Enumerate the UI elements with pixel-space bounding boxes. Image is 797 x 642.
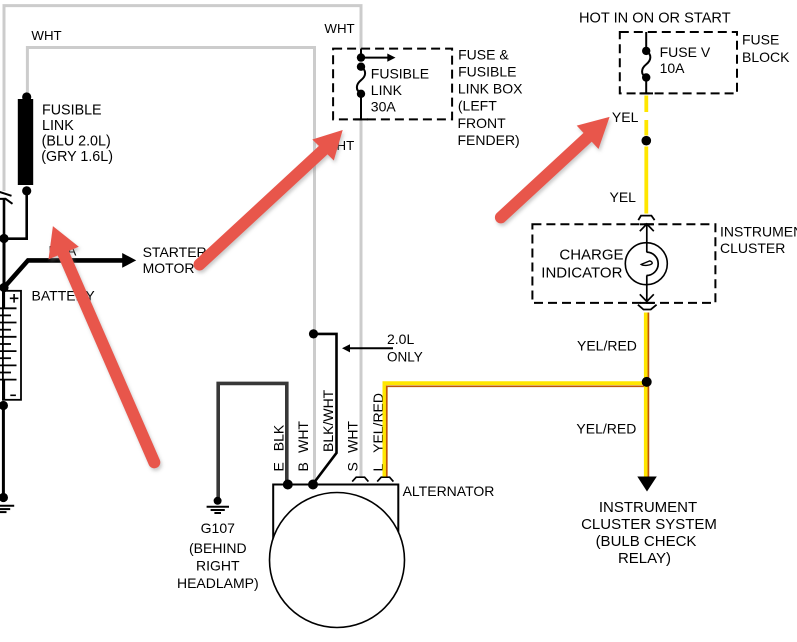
node terminal E xyxy=(283,480,293,490)
arrowhead starter motor xyxy=(122,253,136,268)
wire battery negative to ground xyxy=(2,406,5,498)
svg-text:RIGHT: RIGHT xyxy=(196,557,240,573)
svg-text:CLUSTER: CLUSTER xyxy=(720,240,785,256)
wire fusible link to battery junction xyxy=(4,191,27,239)
svg-text:B: B xyxy=(295,462,311,471)
connector above instrument cluster xyxy=(638,216,654,221)
dash at cluster box top wire crossing xyxy=(640,223,654,225)
svg-text:INDICATOR: INDICATOR xyxy=(541,265,622,282)
wire WHT battery-to-fuseblock (gray, left edge / top / down at x361) xyxy=(4,6,361,191)
svg-text:FUSIBLE: FUSIBLE xyxy=(42,103,102,119)
node ground terminal xyxy=(0,493,8,502)
ground symbol (battery, clipped at edge) xyxy=(0,506,14,512)
fusible link 30A wire top xyxy=(360,49,362,58)
svg-text:(BLU 2.0L): (BLU 2.0L) xyxy=(42,134,111,150)
fusible link 30A element (S-curve) xyxy=(357,67,365,94)
wire fuse V to box bottom xyxy=(645,78,647,94)
svg-text:S: S xyxy=(345,462,361,471)
connector terminal S xyxy=(352,477,368,481)
wire YEL (fuse block to cluster, dashed start) xyxy=(644,96,648,113)
svg-text:FRONT: FRONT xyxy=(458,115,507,131)
svg-text:(BULB CHECK: (BULB CHECK xyxy=(596,533,697,550)
svg-text:FUSE: FUSE xyxy=(742,32,779,48)
svg-text:E: E xyxy=(270,462,286,471)
svg-text:FUSE V: FUSE V xyxy=(660,44,711,60)
wire YEL/RED junction to arrow xyxy=(644,382,648,478)
wire YEL/RED alternator-L to junction (yellow with red tracer) xyxy=(384,383,646,476)
label FUSE & FUSIBLE LINK BOX (LEFT FRONT FENDER) xyxy=(458,46,524,148)
node fusible link 30A top xyxy=(357,53,365,61)
red callout arrow 3 (to fuse block YEL) xyxy=(501,117,610,217)
svg-text:(GRY 1.6L): (GRY 1.6L) xyxy=(41,149,113,165)
svg-text:CHARGE: CHARGE xyxy=(559,247,623,264)
fusible link 30A box (dashed) xyxy=(333,49,452,120)
svg-text:STARTER: STARTER xyxy=(143,244,207,260)
wire E to ground G107 (dark gray) xyxy=(218,383,287,498)
svg-text:INSTRUMENT: INSTRUMENT xyxy=(599,499,697,516)
svg-text:LINK: LINK xyxy=(42,118,74,134)
svg-text:(LEFT: (LEFT xyxy=(458,97,497,113)
wire connector to battery junction (black) xyxy=(3,200,6,239)
svg-text:FUSE &: FUSE & xyxy=(458,46,509,62)
svg-text:LINK: LINK xyxy=(371,82,403,98)
wire junction to battery + xyxy=(3,239,6,288)
wire BLK/WHT 2.0L branch xyxy=(313,334,337,484)
svg-text:FUSIBLE: FUSIBLE xyxy=(458,63,516,79)
node fusible link 30A element top xyxy=(357,62,365,70)
svg-text:YEL/RED: YEL/RED xyxy=(577,337,637,353)
svg-text:BLK: BLK xyxy=(270,424,286,451)
battery B (symbol) xyxy=(0,291,21,400)
dash at fuse block bottom wire crossing xyxy=(640,92,654,94)
charge indicator wire with arrows xyxy=(646,224,648,252)
svg-text:G107: G107 xyxy=(201,520,235,536)
connector pair on left WHT wire (cut off at edge) xyxy=(0,191,13,204)
svg-text:WHT: WHT xyxy=(324,21,354,36)
svg-text:MOTOR: MOTOR xyxy=(143,260,195,276)
arrow 2.0L ONLY xyxy=(349,347,393,349)
arrow tap to right inside box xyxy=(361,57,388,59)
node battery positive xyxy=(0,283,9,292)
connector below instrument cluster xyxy=(638,305,657,310)
svg-text:FENDER): FENDER) xyxy=(458,132,520,148)
svg-text:INSTRUMENT: INSTRUMENT xyxy=(720,224,797,240)
wire battery to starter motor (thick) xyxy=(4,260,123,287)
svg-text:HEADLAMP): HEADLAMP) xyxy=(177,575,259,591)
svg-text:YEL: YEL xyxy=(610,189,637,205)
svg-text:2.0L: 2.0L xyxy=(387,331,414,347)
red callout arrow 2 (to fusible link 30A box) xyxy=(200,130,343,265)
svg-text:LINK BOX: LINK BOX xyxy=(458,80,523,96)
svg-text:WHT: WHT xyxy=(31,28,61,43)
svg-text:WHT: WHT xyxy=(295,421,311,453)
svg-text:WHT: WHT xyxy=(345,421,361,453)
label G107 (BEHIND RIGHT HEADLAMP) xyxy=(177,520,259,591)
svg-text:ALTERNATOR: ALTERNATOR xyxy=(403,483,495,499)
dash at cluster box bottom wire crossing xyxy=(640,302,654,304)
node fuse V top xyxy=(642,47,650,55)
fuse V wire top xyxy=(645,32,647,51)
node BLK/WHT tap on B wire xyxy=(309,329,318,338)
node fusible link 30A element bottom xyxy=(357,90,365,98)
node on YEL wire xyxy=(642,136,652,146)
svg-text:30A: 30A xyxy=(371,99,397,115)
wire WHT fuselink30A-to-alternator-S (gray below box) xyxy=(360,119,363,476)
battery minus sign xyxy=(10,394,16,396)
svg-text:CLUSTER SYSTEM: CLUSTER SYSTEM xyxy=(581,516,717,533)
svg-text:ONLY: ONLY xyxy=(387,350,423,365)
fuse block box (dashed) xyxy=(620,32,737,93)
node battery negative xyxy=(0,401,8,410)
red callout arrow 1 (to left fusible link) xyxy=(49,226,155,462)
wire WHT fusiblelink-to-alternator-B (gray) xyxy=(27,48,314,485)
svg-text:(BEHIND: (BEHIND xyxy=(189,540,247,556)
dash at fusible link box bottom wire crossing xyxy=(355,118,369,120)
alternator circle xyxy=(270,493,405,628)
svg-text:RELAY): RELAY) xyxy=(618,550,671,567)
svg-text:HOT IN ON OR START: HOT IN ON OR START xyxy=(579,11,731,27)
label FUSIBLE LINK (BLU 2.0L) (GRY 1.6L) xyxy=(41,103,113,165)
svg-text:YEL/RED: YEL/RED xyxy=(576,421,636,437)
svg-text:10A: 10A xyxy=(660,60,686,76)
fuse V element (S-curve) xyxy=(642,51,650,78)
node terminal B xyxy=(308,480,318,490)
battery plus sign xyxy=(10,294,19,303)
instrument cluster box (dashed) xyxy=(532,224,715,303)
label INSTRUMENT CLUSTER SYSTEM (BULB CHECK RELAY) xyxy=(581,499,717,567)
node ground G107 xyxy=(214,497,222,505)
arrowhead to instrument cluster system xyxy=(637,477,657,492)
svg-text:BLOCK: BLOCK xyxy=(742,49,790,65)
charge indicator bulb xyxy=(625,243,667,285)
wire to box bottom xyxy=(360,94,362,120)
svg-text:FUSIBLE: FUSIBLE xyxy=(371,65,429,81)
alternator box xyxy=(273,485,398,561)
label FUSIBLE LINK 30A xyxy=(371,65,429,114)
wire YEL/RED cluster to junction xyxy=(644,313,648,382)
ground symbol G107 xyxy=(207,507,229,513)
node junction YEL/RED xyxy=(642,377,652,387)
fusible link F (black bar) xyxy=(18,92,33,195)
node fuse V bottom xyxy=(642,73,650,81)
node junction above battery xyxy=(0,234,9,243)
connector terminal L xyxy=(377,477,393,481)
svg-text:BLK/WHT: BLK/WHT xyxy=(320,389,336,452)
svg-text:YEL: YEL xyxy=(612,109,639,125)
